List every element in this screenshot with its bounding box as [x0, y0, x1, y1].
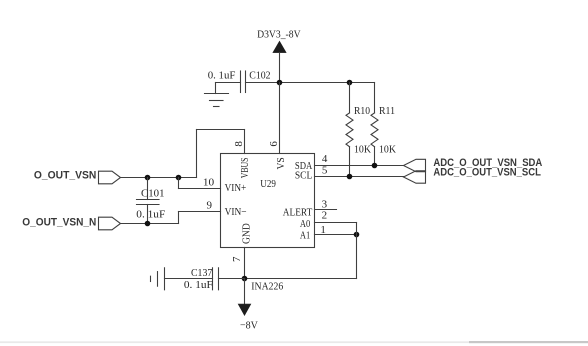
svg-text:INA226: INA226: [251, 281, 283, 293]
svg-text:VIN−: VIN−: [225, 206, 247, 218]
wire top net (O_OUT_VSN): [121, 177, 197, 179]
resistor R11: [371, 83, 378, 166]
svg-text:O_OUT_VSN: O_OUT_VSN: [34, 169, 96, 181]
svg-text:C102: C102: [249, 69, 270, 81]
port O_OUT_VSN_N: [99, 217, 121, 230]
power symbol -8V (down arrow): [238, 279, 251, 316]
svg-text:7: 7: [231, 256, 243, 262]
wire bottom net (O_OUT_VSN_N): [121, 223, 179, 225]
svg-text:0. 1uF: 0. 1uF: [208, 69, 236, 81]
svg-text:C101: C101: [141, 187, 165, 199]
wire SDA pin 4: [315, 165, 404, 167]
node: top net / C101 junction: [145, 175, 151, 181]
port O_OUT_VSN: [99, 171, 121, 184]
svg-text:ALERT: ALERT: [283, 206, 313, 218]
capacitor C137: [165, 268, 245, 290]
svg-text:10: 10: [203, 176, 215, 188]
wire power rail: [216, 82, 375, 84]
node: top net / pin10 branch junction: [176, 175, 182, 181]
svg-text:A0: A0: [300, 218, 311, 230]
svg-text:−8V: −8V: [240, 319, 258, 331]
svg-text:SCL: SCL: [295, 170, 313, 182]
svg-text:O_OUT_VSN_N: O_OUT_VSN_N: [22, 217, 96, 229]
svg-text:1: 1: [320, 224, 326, 236]
resistor R10: [346, 83, 353, 177]
svg-text:0. 1uF: 0. 1uF: [136, 208, 165, 220]
svg-text:10K: 10K: [354, 143, 371, 155]
wire ALERT pin 3 stub: [315, 209, 337, 211]
svg-text:8: 8: [233, 141, 245, 147]
node: A1 / A0 junction: [354, 232, 360, 238]
svg-text:2: 2: [322, 210, 328, 222]
svg-text:5: 5: [322, 164, 328, 176]
svg-text:9: 9: [207, 200, 213, 212]
svg-text:R11: R11: [379, 105, 395, 117]
power symbol D3V3_-8V: [273, 41, 286, 82]
capacitor C102: [241, 71, 246, 93]
svg-text:R10: R10: [354, 105, 370, 117]
svg-text:6: 6: [268, 141, 280, 147]
svg-text:4: 4: [322, 153, 328, 165]
node: bottom net / C101 junction: [145, 221, 151, 227]
svg-text:VS: VS: [275, 157, 287, 169]
svg-text:D3V3_-8V: D3V3_-8V: [257, 29, 301, 41]
svg-text:A1: A1: [300, 229, 310, 241]
svg-text:C137: C137: [191, 267, 213, 279]
wire VS pin 6: [279, 83, 281, 154]
capacitor C101: [137, 178, 160, 224]
svg-text:GND: GND: [241, 223, 253, 244]
svg-text:VBUS: VBUS: [239, 158, 251, 179]
wire A1 pin 1: [315, 234, 357, 236]
wire SCL pin 5: [315, 176, 404, 178]
op-amp U29 (INA226 body): [221, 154, 315, 248]
wire VBUS loop to pin 8: [197, 130, 245, 178]
bottom divider light segment: [0, 341, 469, 343]
svg-text:0. 1uF: 0. 1uF: [184, 279, 213, 291]
svg-text:10K: 10K: [379, 143, 396, 155]
wire GND pin 7: [244, 248, 246, 279]
wire to VIN- pin 9: [179, 212, 221, 224]
node: SCL / R10 junction: [347, 174, 353, 180]
wire A0 pin 2: [315, 222, 357, 224]
bottom divider dark segment: [469, 341, 588, 343]
wire A0/A1 down to GND net: [245, 223, 357, 279]
wire to VIN+ pin 10: [179, 178, 221, 189]
node: power rail / R10 junction: [347, 80, 353, 86]
port ADC_O_OUT_VSN_SCL: [404, 171, 426, 183]
port ADC_O_OUT_VSN_SDA: [404, 159, 426, 171]
svg-text:VIN+: VIN+: [225, 182, 247, 194]
node: SDA / R11 junction: [372, 163, 378, 169]
svg-text:U29: U29: [260, 178, 276, 190]
ground (left of C137, rotated): [151, 268, 165, 290]
ground (left of C102): [205, 83, 229, 107]
node: power rail / VS junction: [277, 80, 283, 86]
svg-text:ADC_O_OUT_VSN_SCL: ADC_O_OUT_VSN_SCL: [433, 167, 541, 179]
node: GND net junction: [242, 276, 248, 282]
